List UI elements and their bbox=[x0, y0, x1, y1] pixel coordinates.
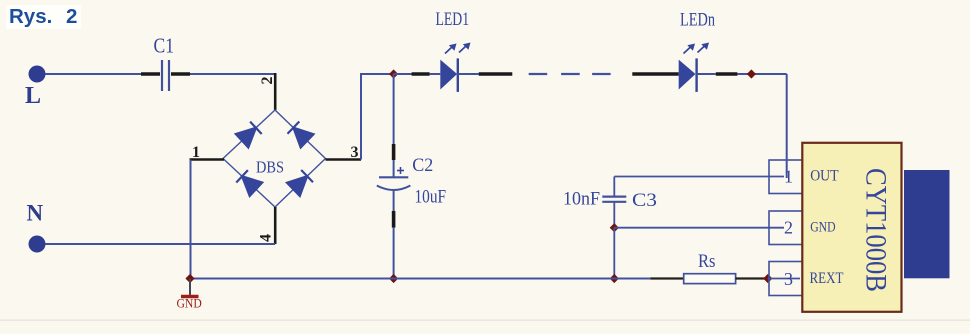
junction node at C2 top bbox=[389, 69, 398, 78]
dashed wire (more LEDs) bbox=[529, 73, 611, 75]
ground rail wire bbox=[191, 278, 651, 280]
capacitor C3 bbox=[563, 177, 657, 228]
capacitor C1 bbox=[141, 34, 190, 92]
wire pin3 up to top rail bbox=[361, 74, 394, 160]
svg-text:CYT1000B: CYT1000B bbox=[860, 168, 893, 292]
wire LEDn to OUT corner bbox=[737, 73, 786, 75]
bridge pin 3 stub bbox=[326, 144, 362, 161]
LED1 bbox=[394, 9, 513, 92]
svg-text:GND: GND bbox=[177, 296, 202, 311]
svg-text:10nF: 10nF bbox=[563, 189, 600, 210]
svg-text:DBS: DBS bbox=[256, 158, 284, 177]
svg-text:C3: C3 bbox=[632, 190, 657, 211]
svg-text:Rs: Rs bbox=[698, 251, 716, 272]
terminal L bbox=[25, 66, 46, 110]
svg-text:1: 1 bbox=[192, 144, 200, 161]
junction node at REXT pin bbox=[763, 274, 772, 283]
svg-text:3: 3 bbox=[351, 144, 359, 161]
bridge pin 1 stub bbox=[190, 144, 225, 161]
pin box 1 bbox=[769, 160, 803, 194]
svg-text:LED1: LED1 bbox=[436, 9, 470, 30]
junction node C3/GND line bbox=[610, 223, 619, 232]
svg-text:2: 2 bbox=[66, 5, 77, 28]
svg-text:C2: C2 bbox=[412, 155, 433, 176]
wire down to pin 1 bbox=[786, 74, 788, 178]
bridge diode top-right bbox=[288, 122, 314, 148]
svg-text:N: N bbox=[27, 201, 44, 226]
bridge pin 2 stub bbox=[259, 73, 276, 110]
IC U1 CYT1000B body bbox=[802, 143, 901, 312]
junction node after LEDn bbox=[747, 69, 756, 78]
svg-text:2: 2 bbox=[259, 77, 276, 85]
wire GND pin line bbox=[614, 227, 784, 229]
wire pin1 down to ground rail bbox=[190, 160, 192, 279]
svg-text:4: 4 bbox=[258, 234, 275, 242]
junction node ground rail bbox=[610, 274, 619, 283]
bridge diode bottom-left bbox=[236, 170, 262, 196]
svg-text:10uF: 10uF bbox=[415, 186, 447, 207]
pin box 2 bbox=[769, 211, 803, 245]
capacitor C2 bbox=[377, 74, 446, 279]
svg-text:L: L bbox=[25, 83, 41, 109]
svg-text:3: 3 bbox=[784, 269, 793, 289]
svg-text:C1: C1 bbox=[154, 34, 175, 58]
wire into REXT pin bbox=[768, 278, 800, 280]
wire C1 to bridge pin 2 bbox=[190, 73, 276, 75]
svg-text:GND: GND bbox=[810, 219, 835, 235]
pin box 3 bbox=[769, 262, 803, 296]
bridge pin 4 stub bbox=[258, 207, 276, 244]
svg-text:2: 2 bbox=[784, 217, 793, 237]
svg-text:REXT: REXT bbox=[810, 270, 844, 287]
junction node at GND bbox=[185, 274, 194, 283]
svg-text:Rys.: Rys. bbox=[9, 5, 52, 28]
bridge rectifier DBS diamond bbox=[223, 110, 326, 207]
wire OUT line to C3 bbox=[614, 176, 784, 178]
wire C3 down to ground rail bbox=[613, 228, 615, 279]
svg-text:LEDn: LEDn bbox=[680, 10, 715, 31]
LEDn bbox=[632, 10, 737, 92]
ground symbol GND bbox=[177, 279, 202, 311]
terminal N bbox=[27, 201, 46, 253]
wire L to C1 bbox=[45, 73, 141, 75]
bridge diode bottom-right bbox=[287, 170, 313, 196]
svg-text:OUT: OUT bbox=[810, 167, 839, 184]
svg-text:1: 1 bbox=[784, 167, 793, 187]
heatsink pad bbox=[904, 170, 950, 278]
bridge diode top-left bbox=[236, 122, 262, 148]
junction node C2 bottom bbox=[389, 274, 398, 283]
resistor Rs bbox=[650, 251, 766, 284]
wire N to bridge pin 4 bbox=[45, 243, 275, 245]
scan shadow line bbox=[0, 319, 970, 321]
